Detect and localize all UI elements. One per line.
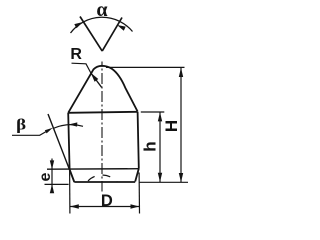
right wall + D extension — [138, 112, 139, 169]
hidden bottom concave arc (dashed) — [87, 175, 117, 182]
e lower arrowhead (points up) — [50, 184, 54, 193]
H dimension line — [180, 68, 182, 182]
left bottom chamfer — [70, 170, 75, 183]
D right arrowhead (points right) — [131, 204, 140, 208]
right bottom chamfer — [135, 169, 139, 182]
svg-text:α: α — [96, 0, 107, 21]
svg-text:D: D — [101, 192, 113, 210]
svg-text:e: e — [37, 172, 54, 181]
body outline: dome + cone sides — [68, 66, 137, 113]
h dimension line — [159, 112, 161, 182]
h top arrowhead — [158, 112, 162, 121]
e dimension vertical line — [51, 159, 53, 193]
beta leader — [12, 131, 48, 136]
e lower extension line — [45, 183, 69, 185]
e-level line across body — [47, 168, 139, 171]
R leader arrowhead — [91, 73, 99, 82]
beta angle arc with tail — [53, 125, 83, 129]
shoulder extension line — [141, 111, 165, 113]
top extension line — [106, 66, 185, 68]
D dimension line — [70, 206, 139, 208]
H bottom arrowhead — [179, 173, 183, 182]
left wall + D extension — [68, 113, 69, 170]
svg-text:H: H — [162, 120, 181, 132]
svg-text:h: h — [140, 141, 159, 151]
H top arrowhead — [179, 68, 183, 77]
D left arrowhead (points left) — [70, 204, 79, 208]
centerline (dash-dot) — [101, 62, 103, 192]
bottom line — [74, 181, 135, 183]
svg-text:R: R — [70, 46, 82, 63]
e upper arrowhead (points down) — [50, 160, 54, 169]
h bottom arrowhead — [158, 173, 162, 182]
beta leader arrowhead — [45, 128, 53, 134]
cone side extension V left leg — [80, 17, 102, 52]
R leader — [72, 63, 91, 73]
beta construction line — [48, 114, 74, 182]
alpha dimension arc — [71, 17, 133, 33]
R radius line to circle centre — [91, 73, 102, 87]
shoulder line — [68, 112, 137, 113]
cone side extension V right leg — [102, 18, 122, 52]
beta arc arrowhead pointing left at wall — [69, 122, 78, 126]
svg-text:β: β — [16, 116, 26, 133]
alpha arc arrowhead left — [74, 22, 83, 28]
alpha arc arrowhead right — [117, 25, 126, 31]
bottom extension line — [139, 181, 188, 183]
